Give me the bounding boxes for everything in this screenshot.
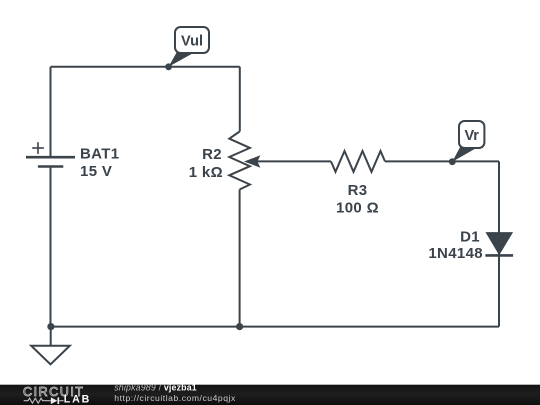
resistor R2 (potentiometer body) [229, 132, 250, 190]
svg-text:D1: D1 [460, 229, 480, 246]
wire R3 to right corner [385, 160, 499, 162]
svg-text:15 V: 15 V [80, 163, 112, 180]
wire left vertical lower (battery - lead) [50, 167, 52, 327]
svg-text:LAB: LAB [64, 393, 90, 405]
wire R2 branch vertical (top lead) [239, 67, 241, 132]
svg-text:Vul: Vul [181, 34, 203, 50]
wire wiper to R3 [257, 160, 331, 162]
svg-text:Vr: Vr [464, 128, 479, 144]
svg-text:R3: R3 [348, 182, 368, 199]
wire left vertical upper (battery + lead) [50, 67, 52, 157]
node Vul flag [165, 27, 209, 70]
wire bottom horizontal (ground net) [51, 326, 500, 328]
svg-text:http://circuitlab.com/cu4pqjx: http://circuitlab.com/cu4pqjx [114, 393, 236, 403]
svg-text:100 Ω: 100 Ω [336, 200, 379, 217]
diode D1 [485, 233, 513, 256]
ground symbol [31, 327, 70, 365]
svg-text:shipka989 / vjezba1: shipka989 / vjezba1 [114, 383, 197, 393]
svg-text:BAT1: BAT1 [80, 146, 119, 163]
svg-text:1 kΩ: 1 kΩ [189, 164, 223, 181]
svg-text:1N4148: 1N4148 [428, 245, 483, 262]
node Vr flag [449, 121, 485, 165]
wiper arrow of R2 [244, 155, 260, 167]
resistor R3 body [331, 151, 385, 172]
svg-text:R2: R2 [202, 146, 222, 163]
wire R2 bottom lead [239, 190, 241, 327]
battery BAT1 [26, 142, 75, 166]
junction node dot at R2 bottom [236, 323, 243, 330]
footer bar [0, 385, 540, 405]
junction node dot at ground [47, 323, 54, 330]
wire right vertical [498, 161, 500, 326]
wire top horizontal (Vul net) [51, 66, 240, 68]
logo resistor glyph [24, 398, 51, 403]
logo diode glyph [51, 397, 58, 404]
